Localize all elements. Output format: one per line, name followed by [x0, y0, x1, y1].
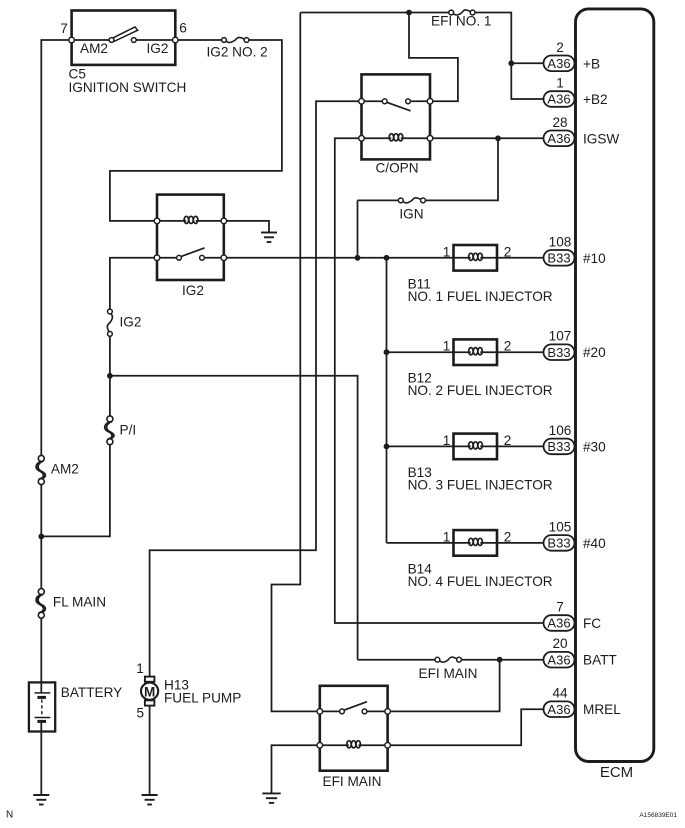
- wire: injector no.2 to ECM #20: [497, 351, 544, 353]
- svg-text:1: 1: [136, 661, 144, 676]
- label IG2 NO. 2: [207, 45, 268, 60]
- label AM2: [51, 462, 79, 477]
- relay C/OPN box: [362, 74, 431, 159]
- wire: IG2 relay coil right terminal to ground: [224, 221, 269, 233]
- pin number 105: [549, 519, 572, 534]
- note N: [6, 810, 13, 821]
- svg-text:A156839E01: A156839E01: [639, 812, 677, 819]
- svg-text:107: 107: [549, 329, 572, 344]
- pin number 7: [556, 600, 564, 615]
- pin number 1: [556, 76, 564, 91]
- fuse EFI NO. 1: [449, 10, 475, 15]
- injector U1 box (B11): [454, 245, 498, 271]
- svg-text:N: N: [6, 810, 13, 821]
- injector B13 pin 1: [443, 433, 451, 448]
- svg-text:1: 1: [443, 339, 451, 354]
- pin number 20: [552, 636, 568, 651]
- wire: battery negative to ground: [40, 721, 42, 795]
- connector A36 pin 1 (+B2): [544, 91, 575, 107]
- svg-text:+B2: +B2: [583, 92, 608, 107]
- injector B13 coil: [454, 442, 498, 449]
- wire: injector no.3 to ECM #30: [497, 445, 544, 447]
- wire: IGN fuse to IGSW junction: [423, 138, 498, 200]
- svg-text:NO. 1 FUEL INJECTOR: NO. 1 FUEL INJECTOR: [408, 289, 553, 304]
- fusible link FL MAIN: [36, 589, 46, 619]
- relay EFI MAIN box: [320, 686, 388, 771]
- relay IG2 terminals: [154, 218, 226, 260]
- fuel pump pin 1: [136, 661, 144, 676]
- label AM2 contact: [80, 41, 108, 56]
- label BATTERY: [61, 685, 122, 700]
- svg-text:BATTERY: BATTERY: [61, 685, 122, 700]
- wire: FL MAIN to battery: [40, 615, 42, 693]
- wire: injector no.4 feed: [387, 542, 454, 544]
- label C/OPN: [375, 161, 418, 176]
- wire: injector no.4 to ECM #40: [497, 542, 544, 544]
- connector A36 pin 7 (FC): [544, 615, 575, 631]
- svg-text:A36: A36: [547, 131, 570, 146]
- svg-text:EFI NO. 1: EFI NO. 1: [431, 14, 491, 29]
- svg-text:MREL: MREL: [583, 702, 621, 717]
- pin number 107: [549, 329, 572, 344]
- label relay IG2: [182, 283, 204, 298]
- ground below fuel pump: [142, 795, 158, 805]
- svg-text:IG2: IG2: [120, 315, 142, 330]
- pin number 6: [179, 21, 187, 36]
- svg-text:7: 7: [60, 21, 68, 36]
- svg-text:A36: A36: [547, 702, 570, 717]
- fuse IGN: [398, 198, 425, 203]
- injector U3 box (B13): [454, 434, 498, 460]
- node: battery junction to P/I branch at (41.3,536.4): [38, 442, 110, 540]
- wire: IGN fuse left lead: [358, 199, 401, 201]
- label IGNITION SWITCH: [69, 80, 187, 95]
- svg-text:44: 44: [552, 686, 568, 701]
- wire: IG2 relay switch left terminal to IG2 fuse: [110, 258, 157, 312]
- svg-text:NO. 2 FUEL INJECTOR: NO. 2 FUEL INJECTOR: [408, 383, 553, 398]
- svg-text:IG2: IG2: [147, 41, 169, 56]
- svg-text:2: 2: [504, 339, 512, 354]
- wire: EFI MAIN relay coil to ECM MREL: [388, 709, 544, 745]
- pin number 108: [549, 234, 572, 249]
- svg-text:FUEL PUMP: FUEL PUMP: [164, 691, 241, 706]
- label B13: [408, 465, 432, 480]
- svg-text:IGN: IGN: [399, 207, 423, 222]
- connector A36 pin 28 (IGSW): [544, 131, 575, 147]
- injector B11 coil: [454, 253, 498, 260]
- svg-text:#20: #20: [583, 345, 606, 360]
- relay EFI MAIN switch row: [320, 710, 388, 712]
- injector B12 pin 1: [443, 339, 451, 354]
- fuse IG2 NO. 2: [222, 37, 249, 42]
- connector A36 pin 44 (MREL): [544, 701, 575, 717]
- svg-text:#10: #10: [583, 251, 606, 266]
- ignition switch C5 box: [72, 11, 176, 65]
- svg-text:IG2: IG2: [182, 283, 204, 298]
- pin number 2: [556, 40, 564, 55]
- relay EFI MAIN coil row: [320, 741, 388, 748]
- svg-text:108: 108: [549, 234, 572, 249]
- ground for EFI MAIN relay coil: [262, 793, 280, 803]
- svg-text:EFI MAIN: EFI MAIN: [419, 666, 478, 681]
- wire: C/OPN relay switch to fuel pump: [150, 101, 362, 677]
- injector U2 box (B12): [454, 339, 498, 365]
- svg-text:6: 6: [179, 21, 187, 36]
- node: EFI NO. 1 junction at top: [406, 10, 458, 102]
- node: IGSW junction: [430, 135, 544, 141]
- label C5: [69, 67, 86, 82]
- pin number 44: [552, 686, 568, 701]
- node: BATT junction after EFI MAIN fuse: [459, 657, 544, 663]
- svg-text:A36: A36: [547, 92, 570, 107]
- wire: top rail down to EFI MAIN relay switch: [272, 13, 320, 712]
- connector A36 pin 20 (BATT): [544, 652, 575, 668]
- relay EFI MAIN switch blade: [344, 702, 368, 711]
- fuse EFI MAIN: [435, 657, 461, 662]
- injector B12 pin 2: [504, 339, 512, 354]
- wire: top rail to EFI NO. 1 fuse: [300, 12, 451, 14]
- net label BATT: [583, 653, 617, 668]
- svg-text:1: 1: [443, 244, 451, 259]
- label FL MAIN: [53, 595, 106, 610]
- wire: ignition switch pin 6 to IG2 NO. 2 fuse: [175, 39, 224, 41]
- svg-text:2: 2: [504, 433, 512, 448]
- connector A36 pin 2 (+B): [544, 56, 575, 72]
- svg-text:5: 5: [137, 706, 145, 721]
- ignition switch internal wires: [72, 39, 176, 41]
- label NO. 2 FUEL INJECTOR: [408, 383, 553, 398]
- svg-text:2: 2: [504, 529, 512, 544]
- injector B11 pin 2: [504, 244, 512, 259]
- svg-text:106: 106: [549, 423, 572, 438]
- connector B33 pin 107 (#20): [544, 344, 575, 360]
- injector B12 coil: [454, 348, 498, 355]
- battery BT1 box: [29, 682, 55, 731]
- label NO. 4 FUEL INJECTOR: [408, 574, 553, 589]
- relay C/OPN switch row: [362, 100, 431, 102]
- net label #30: [583, 439, 606, 454]
- wire: EFI NO. 1 fuse to +B/+B2: [473, 13, 544, 100]
- relay IG2 switch blade: [181, 248, 205, 257]
- node: IGN fuse tap on injector row: [355, 200, 361, 260]
- svg-text:A36: A36: [547, 56, 570, 71]
- connector B33 pin 105 (#40): [544, 535, 575, 551]
- connector B33 pin 106 (#30): [544, 439, 575, 455]
- svg-text:A36: A36: [547, 652, 570, 667]
- svg-text:IGSW: IGSW: [583, 131, 619, 146]
- label ECM: [600, 764, 633, 781]
- injector B14 pin 2: [504, 529, 512, 544]
- svg-text:A36: A36: [547, 616, 570, 631]
- relay IG2 switch circles: [177, 255, 205, 260]
- svg-text:BATT: BATT: [583, 653, 617, 668]
- wire: battery positive feed from ignition switch pin 7 down left column: [41, 40, 71, 458]
- node: injector no.3 tap: [384, 444, 454, 450]
- svg-text:20: 20: [552, 636, 568, 651]
- label B12: [408, 371, 432, 386]
- net label MREL: [583, 702, 621, 717]
- label fuse EFI MAIN: [419, 666, 478, 681]
- injector B13 pin 2: [504, 433, 512, 448]
- net label FC: [583, 616, 601, 631]
- label NO. 1 FUEL INJECTOR: [408, 289, 553, 304]
- relay IG2 switch row: [157, 257, 224, 259]
- injector U4 box (B14): [454, 530, 498, 556]
- wire: EFI MAIN relay coil left to ground: [272, 745, 320, 793]
- relay EFI MAIN terminals: [317, 709, 390, 748]
- svg-text:#40: #40: [583, 536, 606, 551]
- svg-text:B33: B33: [547, 250, 570, 265]
- wire: left column between AM2 fuse and FL MAIN fusible link: [40, 482, 42, 592]
- connector B33 pin 108 (#10): [544, 250, 575, 266]
- wire: fuel pump to ground: [149, 706, 151, 795]
- relay IG2 coil row: [157, 216, 224, 223]
- svg-text:IGNITION SWITCH: IGNITION SWITCH: [69, 80, 187, 95]
- wire: BATT junction down to EFI MAIN relay switch: [388, 660, 500, 712]
- svg-text:AM2: AM2: [51, 462, 79, 477]
- svg-text:7: 7: [556, 600, 564, 615]
- relay IG2 box: [157, 195, 224, 280]
- wire: BATT vertical to EFI MAIN fuse: [358, 659, 438, 661]
- svg-text:1: 1: [443, 433, 451, 448]
- label FUEL PUMP: [164, 691, 241, 706]
- svg-text:2: 2: [504, 244, 512, 259]
- net label +B: [583, 56, 600, 71]
- relay C/OPN switch circles: [382, 99, 410, 104]
- svg-text:IG2 NO. 2: IG2 NO. 2: [207, 45, 268, 60]
- svg-text:FC: FC: [583, 616, 601, 631]
- ignition switch lever: [113, 27, 138, 41]
- net label #10: [583, 251, 606, 266]
- wire: C/OPN relay coil left to ECM FC: [335, 138, 544, 623]
- label EFI NO. 1: [431, 14, 491, 29]
- net label IGSW: [583, 131, 619, 146]
- label IG2 contact: [147, 41, 169, 56]
- relay C/OPN coil row: [362, 134, 431, 141]
- svg-text:B33: B33: [547, 536, 570, 551]
- svg-text:B33: B33: [547, 439, 570, 454]
- svg-text:NO. 4 FUEL INJECTOR: NO. 4 FUEL INJECTOR: [408, 574, 553, 589]
- svg-text:2: 2: [556, 40, 564, 55]
- fuel pump motor H13: [141, 677, 158, 706]
- svg-text:NO. 3 FUEL INJECTOR: NO. 3 FUEL INJECTOR: [408, 477, 553, 492]
- svg-text:1: 1: [443, 529, 451, 544]
- relay C/OPN switch blade: [386, 102, 410, 111]
- ground for IG2 relay coil: [261, 233, 277, 243]
- label NO. 3 FUEL INJECTOR: [408, 477, 553, 492]
- node: P/I junction at (109.9,375.8) and wire to BATT vertical: [107, 373, 358, 660]
- drawing number A156839E01: [639, 812, 677, 819]
- svg-text:EFI MAIN: EFI MAIN: [323, 774, 382, 789]
- node: injector feed tap: [384, 255, 390, 543]
- injector B11 pin 1: [443, 244, 451, 259]
- injector B14 coil: [454, 538, 498, 545]
- fusible link P/I: [104, 416, 114, 445]
- net label #20: [583, 345, 606, 360]
- pin number 7: [60, 21, 68, 36]
- injector B14 pin 1: [443, 529, 451, 544]
- svg-text:P/I: P/I: [120, 423, 137, 438]
- relay C/OPN terminals: [359, 99, 433, 142]
- ECM body U2: [576, 9, 654, 762]
- svg-text:ECM: ECM: [600, 764, 633, 781]
- ignition switch contact circles: [109, 38, 136, 43]
- ground below battery: [33, 795, 49, 805]
- pin number 106: [549, 423, 572, 438]
- wire: IG2 relay switch output row to no.1 injector and ECM #10: [224, 257, 544, 259]
- label fuse IG2: [120, 315, 142, 330]
- pin number 28: [552, 115, 567, 130]
- svg-text:105: 105: [549, 519, 572, 534]
- fuse IG2 (fusible link): [107, 309, 112, 336]
- svg-text:FL MAIN: FL MAIN: [53, 595, 106, 610]
- wire: IG2 fuse to P/I fusible link: [109, 334, 111, 419]
- svg-text:+B: +B: [583, 56, 600, 71]
- svg-text:M: M: [144, 684, 155, 699]
- ignition switch pin 7 terminal: [69, 37, 75, 43]
- relay EFI MAIN switch circles: [340, 709, 367, 714]
- net label +B2: [583, 92, 608, 107]
- wire: IG2 NO. 2 fuse to IG2 relay coil: [110, 40, 282, 221]
- label H13: [164, 678, 189, 693]
- svg-text:AM2: AM2: [80, 41, 108, 56]
- ignition switch pin 6 terminal: [173, 37, 179, 43]
- fuel pump pin 5: [137, 706, 145, 721]
- svg-text:C/OPN: C/OPN: [375, 161, 418, 176]
- node: +B tap: [508, 60, 543, 66]
- node: injector no.2 tap: [384, 349, 454, 355]
- net label #40: [583, 536, 606, 551]
- label B14: [408, 561, 433, 576]
- svg-text:B33: B33: [547, 345, 570, 360]
- svg-text:1: 1: [556, 76, 564, 91]
- label P/I: [120, 423, 137, 438]
- svg-text:28: 28: [552, 115, 567, 130]
- label IGN: [399, 207, 423, 222]
- battery plates: [35, 693, 51, 722]
- fusible link AM2: [36, 455, 46, 484]
- label relay EFI MAIN: [323, 774, 382, 789]
- label B11: [408, 276, 431, 291]
- svg-text:#30: #30: [583, 439, 606, 454]
